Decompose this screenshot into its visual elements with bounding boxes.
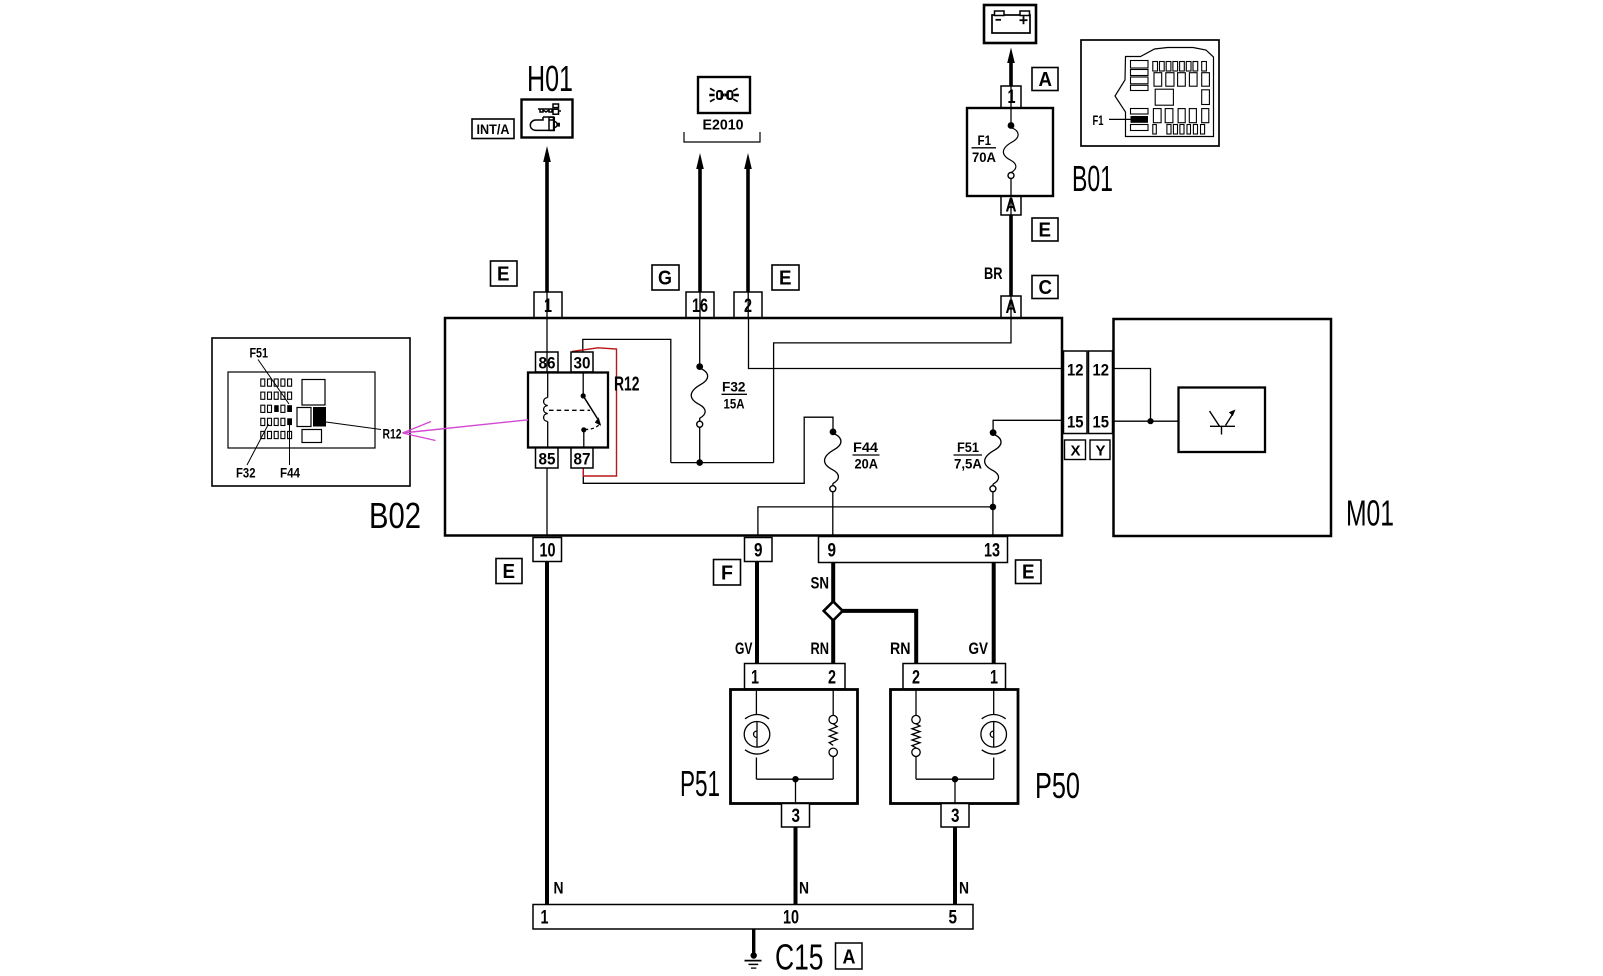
wire pin2 to connector 12 row [749, 318, 1064, 369]
wire arrow 16 to E2010 [696, 153, 704, 292]
label F32 15A [722, 379, 748, 412]
svg-text:20A: 20A [855, 456, 879, 472]
svg-text:85: 85 [539, 450, 556, 469]
svg-text:F1: F1 [1093, 112, 1104, 128]
svg-text:N: N [554, 879, 564, 898]
wire relay 85 to pin 10 [546, 468, 548, 537]
wire connector 15 row to F51 [993, 420, 1063, 429]
svg-text:INT/A: INT/A [477, 121, 510, 137]
wire arrow to battery [1007, 48, 1015, 87]
svg-text:5: 5 [949, 908, 958, 929]
svg-text:A: A [1006, 297, 1017, 318]
fuse F44 20A [825, 429, 841, 537]
component H01 icon box (ignition switch) [522, 100, 573, 138]
lamp in P50 [981, 690, 1007, 780]
label F51 7,5A [954, 439, 983, 472]
fuse F1 element [1003, 108, 1018, 196]
svg-text:C: C [1039, 277, 1053, 299]
svg-text:12: 12 [1067, 361, 1084, 380]
junction node F32 bottom [696, 459, 703, 466]
svg-text:F1: F1 [978, 132, 992, 148]
junction node in M01 [1147, 418, 1153, 424]
pin 3 of P50 [941, 804, 969, 828]
connector pin boxes 12/15 (Y) [1089, 351, 1113, 434]
wire F51 to pin 9 (F) [758, 507, 993, 537]
svg-text:RN: RN [890, 639, 911, 658]
svg-text:E: E [1022, 562, 1035, 584]
sheet ref C [1032, 276, 1058, 300]
sheet ref G [652, 265, 679, 290]
svg-text:E: E [503, 561, 516, 583]
sheet ref E (battery column) [1032, 218, 1058, 242]
svg-text:E: E [779, 268, 792, 290]
fuse F1 highlighted cell [1131, 116, 1149, 123]
fuse F51 7,5A [985, 429, 1001, 536]
component P51 fog lamp left [731, 690, 858, 804]
svg-text:M01: M01 [1346, 493, 1394, 534]
resistor element in P50 [912, 690, 920, 780]
connector pin boxes 12/15 (X) [1064, 351, 1088, 434]
fuse grid in inset [261, 379, 292, 439]
svg-text:E: E [1039, 220, 1052, 242]
component E2010 icon box (front fog lamps) [698, 77, 750, 113]
pointer F32 [247, 424, 269, 465]
svg-text:P50: P50 [1035, 765, 1080, 806]
svg-text:E: E [497, 264, 510, 286]
wire arrow to H01 [543, 146, 551, 292]
svg-text:1: 1 [541, 908, 549, 929]
pin row of P51 [745, 664, 846, 690]
pin A of B01 [1001, 196, 1021, 217]
wire through pin 2 box [747, 292, 749, 318]
svg-text:B01: B01 [1072, 158, 1113, 199]
highlighted fuse cells [274, 405, 279, 412]
sheet ref E (pin13) [1016, 560, 1042, 584]
svg-text:RN: RN [811, 639, 830, 658]
pin 85 of R12 [536, 448, 559, 469]
svg-text:F32: F32 [722, 379, 746, 395]
wire N from P51 pin3 to bus [794, 827, 798, 905]
svg-text:2: 2 [744, 296, 752, 317]
relay coil (86-85) [544, 373, 548, 448]
lamp in P51 [744, 690, 770, 780]
sheet ref X [1065, 440, 1086, 460]
svg-text:GV: GV [735, 639, 753, 658]
pin 86 of R12 [536, 352, 559, 373]
svg-text:7,5A: 7,5A [954, 456, 982, 472]
pin 87 of R12 [571, 448, 593, 469]
pin A of B02 (top) [1001, 296, 1021, 318]
svg-text:3: 3 [951, 806, 960, 827]
svg-text:10: 10 [540, 541, 556, 562]
svg-text:10: 10 [783, 908, 799, 929]
wire relay 30 to battery node [583, 339, 671, 462]
svg-text:N: N [959, 879, 969, 898]
ground symbol C15 [745, 929, 762, 968]
wire N from pin10 to ground bus [545, 562, 549, 905]
relay mechanical link dashed [549, 409, 590, 411]
pin 30 of R12 [571, 352, 593, 373]
svg-text:P51: P51 [680, 763, 720, 804]
component B02 body computer box [445, 318, 1062, 536]
wire through B01 pin 1 box [1010, 86, 1012, 108]
svg-text:GV: GV [969, 639, 989, 658]
svg-text:15: 15 [1093, 413, 1110, 432]
sheet ref E (mid) [772, 265, 799, 290]
P51 internal ground wire [756, 776, 833, 804]
svg-text:F51: F51 [957, 439, 979, 455]
gauge symbol [1210, 411, 1236, 435]
svg-text:12: 12 [1093, 361, 1110, 380]
junction diamond SN/RN [824, 601, 843, 620]
pointer F44 [289, 425, 291, 465]
component P50 fog lamp right [891, 690, 1019, 804]
wire relay 87 to F44 [583, 417, 833, 483]
svg-text:70A: 70A [972, 149, 996, 165]
pin 1 of B01 [1001, 86, 1021, 108]
pin 9 of B02 (F) [745, 538, 773, 562]
svg-text:B02: B02 [369, 495, 421, 536]
wire common node at F32 bottom [671, 462, 774, 464]
wire GV pin9 to P51 pin1 [755, 562, 759, 664]
wire 15 into M01 [1113, 420, 1179, 422]
svg-text:16: 16 [692, 296, 708, 317]
wire 12 into M01 [1113, 369, 1151, 422]
svg-text:1: 1 [544, 296, 552, 317]
svg-text:H01: H01 [527, 58, 573, 99]
wire through pin 1 box [546, 292, 548, 318]
svg-text:F: F [721, 563, 733, 585]
wire pin1 to relay 86 [546, 318, 548, 373]
svg-text:1: 1 [990, 668, 998, 689]
svg-text:G: G [658, 268, 672, 290]
svg-text:F51: F51 [250, 345, 269, 361]
wire arrow 2 to E2010 [744, 153, 752, 292]
pointer F51 [258, 360, 289, 405]
P50 internal ground wire [916, 776, 994, 804]
svg-text:R12: R12 [383, 426, 402, 442]
svg-text:13: 13 [984, 541, 1000, 562]
svg-text:A: A [843, 947, 856, 969]
relay R12 box [528, 373, 608, 448]
svg-text:2: 2 [828, 668, 836, 689]
gauge element box in M01 [1179, 388, 1266, 453]
svg-text:30: 30 [574, 354, 591, 373]
component B02 connector detail inset [212, 338, 410, 486]
component B01 location inset (fuse panel drawing) [1081, 40, 1219, 146]
sheet ref E (pin10) [496, 559, 522, 584]
pin 3 of P51 [782, 804, 810, 828]
pin 16 of B02 [686, 292, 714, 318]
pin 1 of B02 (top) [534, 292, 562, 318]
svg-text:C15: C15 [775, 937, 824, 976]
svg-text:87: 87 [574, 450, 591, 469]
svg-text:A: A [1006, 196, 1017, 217]
junction node F51 bottom [990, 504, 997, 511]
svg-text:2: 2 [912, 668, 920, 689]
svg-text:BR: BR [984, 264, 1003, 283]
svg-text:15: 15 [1067, 413, 1084, 432]
svg-text:1: 1 [751, 668, 759, 689]
component M01 instrument cluster box [1114, 319, 1332, 536]
wire pin16 to F32 [699, 318, 701, 364]
svg-text:Y: Y [1096, 443, 1106, 460]
wire through pin A box [1010, 296, 1012, 318]
svg-text:3: 3 [792, 806, 801, 827]
pin 9-13 connector of B02 [819, 537, 1008, 563]
sheet ref E (left) [491, 261, 518, 286]
svg-text:R12: R12 [614, 374, 640, 396]
red highlight trace 30-87 [572, 348, 617, 476]
bracket under E2010 [684, 132, 760, 142]
svg-text:F44: F44 [853, 439, 878, 455]
svg-text:F32: F32 [236, 465, 256, 481]
pin 2 of B02 [734, 292, 762, 318]
pointer R12 [326, 422, 381, 430]
wire BR battery feed [1009, 215, 1013, 296]
svg-text:9: 9 [828, 541, 837, 562]
pin row of P50 [903, 664, 1006, 690]
ground bus connector [533, 905, 973, 930]
wire N from P50 pin3 to bus [953, 827, 957, 905]
sheet ref F [714, 560, 741, 586]
pin 10 of B02 [533, 538, 562, 562]
svg-text:X: X [1071, 443, 1081, 460]
wire battery A feed into B02 [774, 318, 1011, 463]
svg-text:E2010: E2010 [703, 117, 744, 134]
magenta arrow to relay R12 [403, 420, 529, 441]
wire RN junction to P50 pin2 [841, 611, 917, 664]
sheet ref A (ground) [836, 943, 863, 969]
svg-text:15A: 15A [724, 396, 745, 412]
relay cavities in inset [297, 380, 325, 443]
svg-text:86: 86 [539, 354, 556, 373]
wire through B01 pin A box [1010, 196, 1012, 215]
switch element in P51 [829, 690, 837, 780]
svg-text:SN: SN [811, 574, 830, 593]
wire RN junction to P51 pin2 [831, 619, 835, 664]
svg-text:A: A [1039, 69, 1053, 91]
wire GV pin13 to P50 pin1 [992, 563, 996, 664]
fuse F32 15A [691, 363, 707, 462]
highlighted relay cavity R12 [313, 407, 326, 427]
component B01 fuse box (F1 70A) [967, 108, 1053, 196]
battery A [984, 5, 1036, 43]
label F44 20A [853, 439, 880, 472]
wire SN from pin9 to junction [831, 563, 835, 603]
sheet ref A [1032, 68, 1058, 92]
label INT/A [472, 119, 514, 139]
relay contact (30-87) [581, 373, 602, 448]
svg-text:9: 9 [754, 541, 763, 562]
wire through pin 16 box [699, 292, 701, 318]
sheet ref Y [1090, 440, 1110, 460]
svg-text:1: 1 [1008, 87, 1016, 108]
svg-text:N: N [799, 879, 809, 898]
svg-text:F44: F44 [280, 465, 300, 481]
